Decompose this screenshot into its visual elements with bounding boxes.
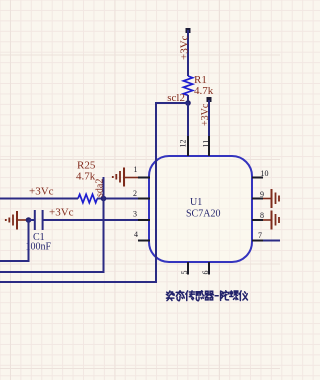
resistor R1 — [183, 76, 192, 95]
wire junction to pin 12 — [187, 103, 189, 136]
svg-text:+3Vc: +3Vc — [178, 35, 190, 60]
svg-text:SC7A20: SC7A20 — [186, 209, 220, 220]
pin 12 — [187, 136, 189, 156]
pin 6 — [208, 262, 210, 275]
svg-text:+3Vc: +3Vc — [200, 103, 211, 126]
svg-text:10: 10 — [261, 169, 269, 178]
capacitor C1 plates — [35, 210, 43, 230]
char zi — [166, 291, 174, 301]
wire pin 7 to right edge — [263, 240, 280, 242]
char luo — [230, 291, 238, 300]
power port +3Vc top bar — [186, 28, 191, 33]
char chuan — [186, 291, 195, 301]
ground at pin 9 — [263, 189, 279, 208]
svg-text:4.7k: 4.7k — [194, 85, 214, 97]
svg-text:+3Vc: +3Vc — [29, 186, 54, 198]
char yi — [239, 291, 247, 301]
svg-text:11: 11 — [202, 140, 211, 148]
wire junction to C1 — [29, 219, 35, 221]
pin 9 — [252, 198, 263, 200]
wire power to pin 11 — [208, 100, 210, 136]
svg-text:4: 4 — [134, 230, 138, 239]
pin 4 — [138, 240, 150, 242]
svg-text:1: 1 — [134, 165, 138, 174]
svg-text:+3Vc: +3Vc — [49, 207, 74, 219]
junction C1 node — [26, 217, 32, 223]
resistor R25 — [78, 194, 97, 202]
wire sda2 bottom to left edge — [0, 271, 105, 273]
pin 5 — [187, 262, 189, 275]
ground at pin 8 — [263, 211, 279, 230]
wire sda2 vertical — [103, 177, 105, 272]
wire scl2 bottom to left edge — [0, 281, 157, 283]
svg-text:6: 6 — [201, 271, 210, 275]
wire R25 to pin 2 — [97, 198, 138, 200]
pin 10 — [252, 177, 263, 179]
wire gnd branch bottom to left edge — [0, 260, 30, 262]
junction scl2 node — [185, 100, 191, 106]
title text 姿态传感器-陀螺仪 — [166, 291, 247, 301]
IC U1 SC7A20 body — [149, 156, 252, 262]
svg-text:9: 9 — [260, 190, 264, 199]
svg-text:7: 7 — [258, 231, 262, 240]
pin 11 — [208, 136, 210, 156]
char qi — [205, 291, 213, 300]
wire scl2 vertical through chip — [155, 102, 157, 282]
svg-text:5: 5 — [180, 271, 189, 275]
wire R1 to junction — [187, 95, 189, 103]
svg-text:U1: U1 — [190, 197, 202, 208]
svg-text:8: 8 — [260, 211, 264, 220]
power port +3Vc at pin 11 bar — [207, 97, 212, 102]
svg-text:2: 2 — [133, 189, 137, 198]
pin 7 — [252, 240, 263, 242]
wire +3Vc row to R25 — [0, 198, 78, 200]
wire power to R1 — [187, 30, 189, 76]
ground at C1 — [6, 211, 27, 230]
pin 2 — [138, 198, 150, 200]
wire C1 junction down — [28, 220, 30, 261]
char gan — [196, 291, 204, 301]
wire scl2 horizontal — [156, 102, 189, 104]
ground at pin 1 — [113, 168, 138, 187]
pin 1 — [138, 177, 150, 179]
svg-text:12: 12 — [179, 140, 188, 148]
svg-text:3: 3 — [133, 210, 137, 219]
junction sda2 node — [101, 196, 107, 202]
char tai — [176, 291, 184, 301]
svg-text:4.7k: 4.7k — [76, 171, 96, 183]
pin 8 — [252, 219, 263, 221]
pin 3 — [138, 219, 150, 221]
char tuo — [221, 291, 229, 301]
wire C1 to pin 3 — [43, 219, 138, 221]
hyphen — [215, 295, 218, 297]
